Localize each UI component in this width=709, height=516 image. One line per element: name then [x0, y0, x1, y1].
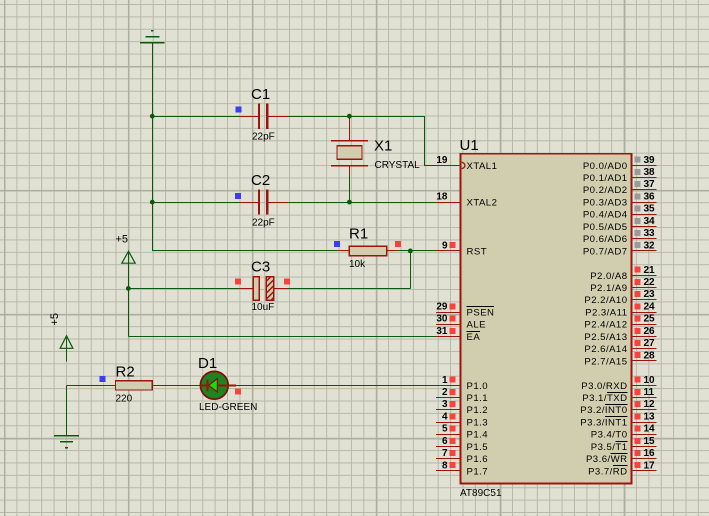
- svg-text:25: 25: [644, 314, 656, 325]
- svg-text:EA: EA: [467, 332, 481, 343]
- svg-text:P1.1: P1.1: [467, 393, 489, 404]
- svg-text:34: 34: [644, 216, 656, 227]
- svg-text:P1.3: P1.3: [467, 417, 489, 428]
- svg-text:26: 26: [644, 326, 656, 337]
- svg-text:9: 9: [442, 240, 448, 251]
- svg-text:16: 16: [644, 448, 656, 459]
- svg-text:P2.1/A9: P2.1/A9: [590, 283, 627, 294]
- svg-text:10uF: 10uF: [252, 302, 275, 313]
- svg-text:22: 22: [644, 277, 656, 288]
- svg-text:XTAL2: XTAL2: [467, 198, 498, 209]
- svg-text:P3.1/TXD: P3.1/TXD: [582, 393, 627, 404]
- svg-text:P3.4/T0: P3.4/T0: [591, 430, 628, 441]
- svg-text:24: 24: [644, 301, 656, 312]
- svg-text:12: 12: [644, 399, 656, 410]
- svg-text:2: 2: [442, 387, 448, 398]
- svg-text:C2: C2: [251, 172, 270, 189]
- svg-text:13: 13: [644, 411, 656, 422]
- svg-text:P3.5/T1: P3.5/T1: [591, 442, 628, 453]
- svg-text:11: 11: [644, 387, 655, 398]
- svg-text:C3: C3: [251, 259, 270, 276]
- svg-text:AT89C51: AT89C51: [460, 488, 502, 499]
- svg-text:21: 21: [644, 265, 656, 276]
- svg-text:8: 8: [442, 460, 448, 471]
- svg-text:X1: X1: [374, 138, 392, 155]
- svg-text:P0.5/AD5: P0.5/AD5: [583, 222, 628, 233]
- svg-text:ALE: ALE: [467, 320, 486, 331]
- svg-text:XTAL1: XTAL1: [467, 161, 498, 172]
- svg-text:U1: U1: [460, 137, 479, 154]
- svg-text:P3.6/WR: P3.6/WR: [586, 454, 628, 465]
- svg-text:5: 5: [442, 424, 448, 435]
- svg-text:31: 31: [436, 326, 448, 337]
- svg-text:39: 39: [644, 155, 656, 166]
- svg-text:+5: +5: [49, 313, 61, 326]
- svg-text:29: 29: [436, 301, 448, 312]
- svg-text:19: 19: [436, 155, 448, 166]
- svg-text:P3.7/RD: P3.7/RD: [588, 466, 627, 477]
- svg-text:10: 10: [644, 375, 656, 386]
- svg-text:7: 7: [442, 448, 448, 459]
- svg-text:1: 1: [442, 375, 448, 386]
- svg-text:P0.1/AD1: P0.1/AD1: [583, 173, 628, 184]
- svg-text:P1.5: P1.5: [467, 442, 489, 453]
- svg-text:P0.6/AD6: P0.6/AD6: [583, 234, 628, 245]
- svg-text:P2.7/A15: P2.7/A15: [584, 356, 627, 367]
- svg-text:23: 23: [644, 289, 656, 300]
- svg-text:27: 27: [644, 338, 656, 349]
- svg-text:P0.2/AD2: P0.2/AD2: [583, 185, 628, 196]
- svg-text:36: 36: [644, 192, 656, 203]
- svg-text:R2: R2: [116, 363, 135, 380]
- svg-text:15: 15: [644, 436, 656, 447]
- svg-text:P2.4/A12: P2.4/A12: [584, 320, 627, 331]
- svg-text:P2.0/A8: P2.0/A8: [590, 271, 627, 282]
- svg-text:18: 18: [436, 192, 448, 203]
- svg-text:P2.2/A10: P2.2/A10: [584, 295, 627, 306]
- svg-text:35: 35: [644, 204, 656, 215]
- svg-text:4: 4: [442, 411, 448, 422]
- svg-text:22pF: 22pF: [252, 132, 275, 143]
- svg-text:P1.6: P1.6: [467, 454, 489, 465]
- svg-text:RST: RST: [467, 246, 488, 257]
- svg-text:+5: +5: [116, 234, 129, 246]
- svg-text:17: 17: [644, 460, 656, 471]
- svg-text:P2.6/A14: P2.6/A14: [584, 344, 627, 355]
- svg-text:10k: 10k: [349, 259, 366, 270]
- svg-text:R1: R1: [349, 226, 368, 243]
- svg-text:P1.4: P1.4: [467, 430, 489, 441]
- svg-text:P1.0: P1.0: [467, 381, 489, 392]
- svg-text:P2.3/A11: P2.3/A11: [585, 307, 627, 318]
- svg-text:P3.2/INT0: P3.2/INT0: [580, 405, 627, 416]
- svg-text:P2.5/A13: P2.5/A13: [584, 332, 627, 343]
- svg-text:C1: C1: [251, 86, 270, 103]
- svg-text:38: 38: [644, 167, 656, 178]
- svg-text:P0.0/AD0: P0.0/AD0: [583, 161, 628, 172]
- svg-text:6: 6: [442, 436, 448, 447]
- svg-text:D1: D1: [198, 355, 217, 372]
- svg-text:22pF: 22pF: [252, 217, 275, 228]
- svg-text:PSEN: PSEN: [467, 307, 495, 318]
- svg-text:P1.7: P1.7: [467, 466, 489, 477]
- svg-text:P1.2: P1.2: [467, 405, 489, 416]
- svg-text:28: 28: [644, 350, 656, 361]
- svg-text:CRYSTAL: CRYSTAL: [375, 160, 421, 171]
- svg-text:P3.3/INT1: P3.3/INT1: [580, 417, 627, 428]
- svg-text:32: 32: [644, 240, 656, 251]
- svg-text:14: 14: [644, 424, 656, 435]
- svg-text:P0.3/AD3: P0.3/AD3: [583, 198, 628, 209]
- svg-text:P0.7/AD7: P0.7/AD7: [583, 246, 628, 257]
- svg-text:LED-GREEN: LED-GREEN: [199, 402, 257, 413]
- svg-text:33: 33: [644, 228, 656, 239]
- svg-text:3: 3: [442, 399, 448, 410]
- svg-text:220: 220: [116, 394, 133, 405]
- svg-text:P0.4/AD4: P0.4/AD4: [583, 210, 628, 221]
- svg-text:P3.0/RXD: P3.0/RXD: [581, 381, 627, 392]
- svg-text:37: 37: [644, 179, 656, 190]
- svg-text:30: 30: [436, 314, 448, 325]
